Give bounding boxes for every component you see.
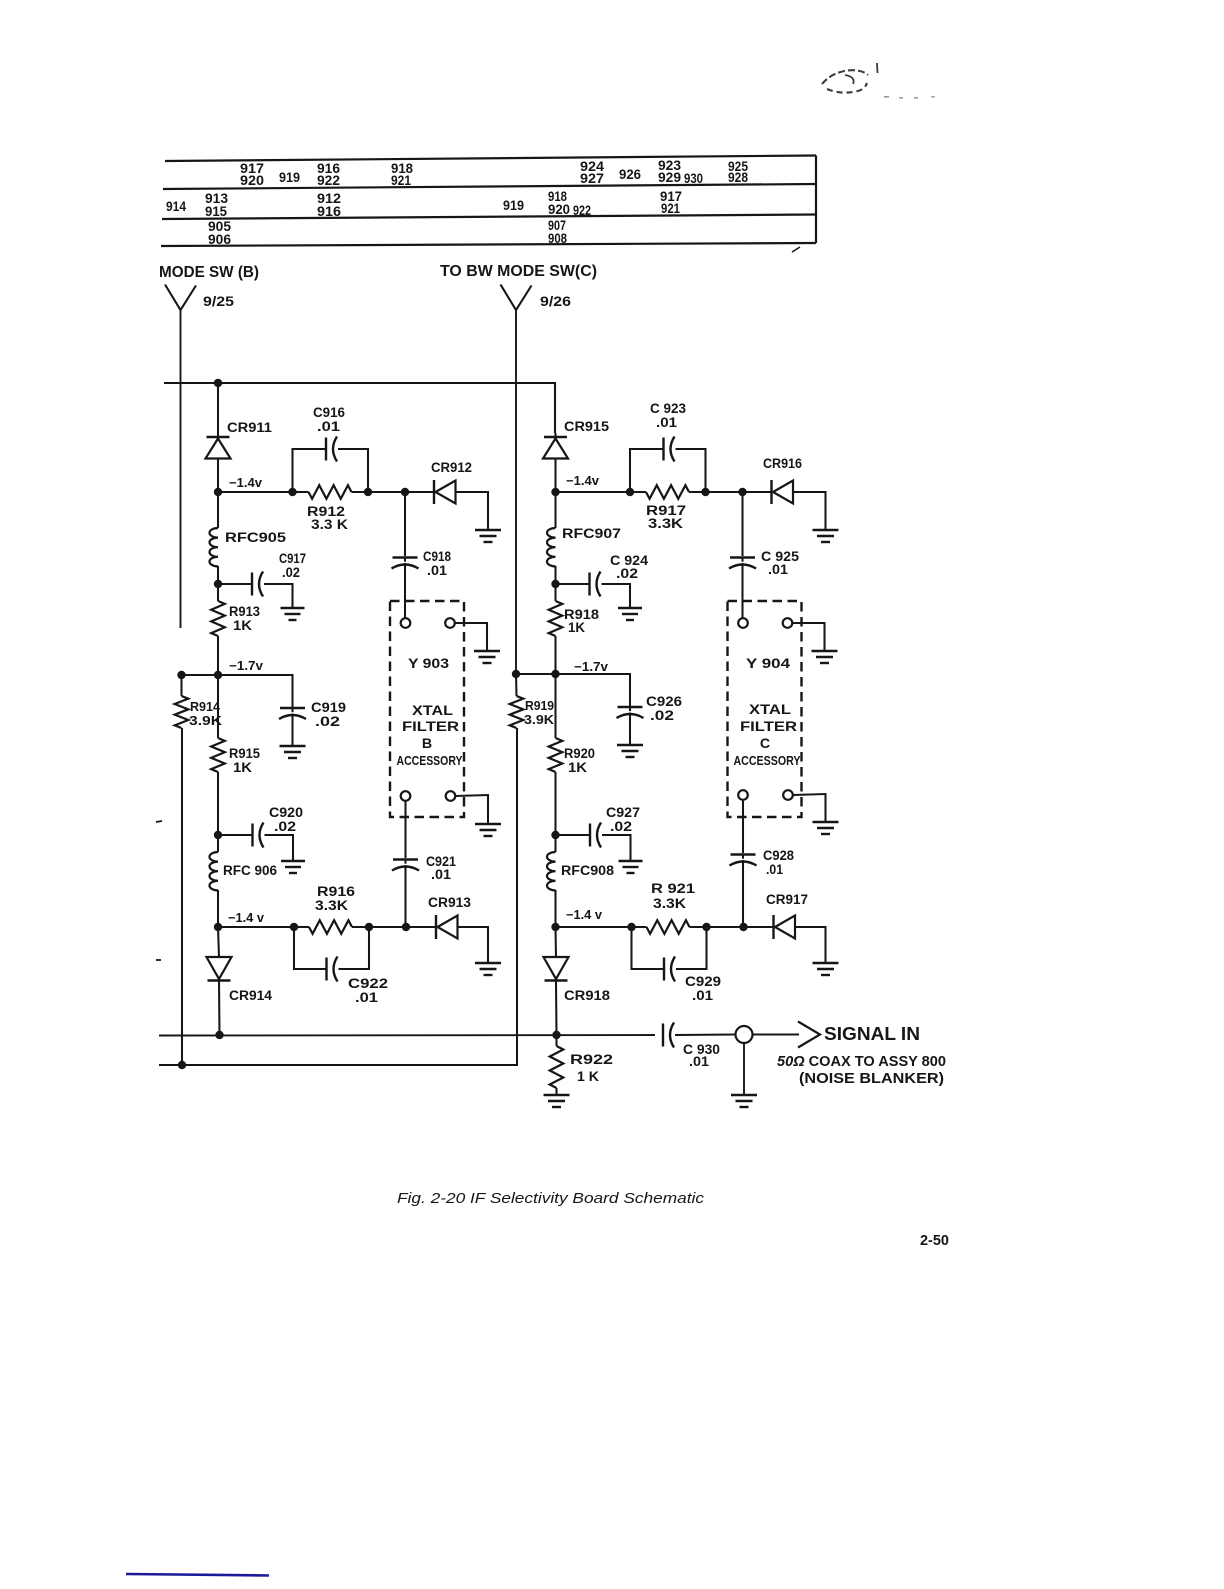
node -1.4v row2 left — [214, 923, 222, 931]
label C925 value — [768, 562, 788, 578]
capacitor C927 — [556, 823, 631, 861]
svg-text:.01: .01 — [317, 419, 340, 435]
wire -1.7v row — [182, 674, 219, 676]
label C924 value — [616, 566, 638, 582]
wire R917 to C925 node — [706, 491, 772, 493]
node top bus / CR911 — [214, 379, 222, 387]
svg-text:926: 926 — [619, 167, 641, 182]
capacitor C918 — [392, 492, 419, 619]
ground R922 — [544, 1095, 570, 1107]
label CR912 — [431, 460, 472, 476]
svg-text:.02: .02 — [650, 708, 674, 724]
terminal Y904 pin 2 — [783, 618, 793, 628]
svg-text:−1.4 v: −1.4 v — [566, 908, 602, 922]
svg-text:921: 921 — [661, 201, 680, 216]
svg-text:1K: 1K — [568, 620, 586, 636]
svg-text:919: 919 — [279, 170, 300, 185]
ground connector — [731, 1095, 757, 1107]
choke RFC905 — [209, 492, 218, 584]
label C929 — [685, 974, 721, 990]
svg-text:Y 903: Y 903 — [408, 656, 449, 672]
wire bus2 — [159, 1064, 517, 1066]
label -1.4v (1) — [229, 476, 262, 490]
label -1.7v (r) — [574, 660, 608, 674]
label R916 — [317, 884, 355, 900]
svg-text:CR915: CR915 — [564, 419, 609, 435]
svg-text:908: 908 — [548, 231, 567, 246]
table tick mark — [792, 247, 800, 252]
terminal Y903 pin 3 — [401, 791, 411, 801]
label R918 — [564, 607, 599, 623]
svg-text:CR913: CR913 — [428, 895, 471, 911]
ground C920 — [281, 861, 305, 873]
label -1.7v — [229, 659, 263, 673]
svg-text:919: 919 — [503, 198, 524, 213]
svg-text:9/26: 9/26 — [540, 293, 571, 309]
stray mark 1 — [156, 821, 162, 822]
label R921 — [651, 881, 695, 897]
resistor R920 — [549, 674, 563, 835]
svg-text:.01: .01 — [766, 862, 783, 878]
wire R916 to CR913 — [369, 926, 436, 928]
wire R921 to CR917 — [707, 926, 774, 928]
svg-text:R914: R914 — [190, 699, 221, 714]
svg-text:CR912: CR912 — [431, 460, 472, 476]
ground Y904 pin4 — [813, 822, 839, 834]
label B — [422, 736, 432, 752]
svg-text:SIGNAL IN: SIGNAL IN — [824, 1024, 920, 1044]
table line 2 — [163, 184, 816, 189]
capacitor C926 — [556, 674, 644, 745]
resistor R917 — [630, 485, 706, 499]
label C926 value — [650, 708, 674, 724]
node R914 / bus2 — [178, 1061, 186, 1069]
svg-text:1K: 1K — [233, 618, 253, 634]
arrow to mode sw B — [165, 285, 196, 311]
label C923 value — [656, 415, 677, 431]
svg-text:1 K: 1 K — [577, 1069, 600, 1085]
resistor R913 — [211, 584, 225, 675]
label XTAL r — [749, 702, 791, 718]
svg-text:RFC 906: RFC 906 — [223, 863, 277, 879]
label C927 value — [610, 819, 632, 835]
label CR911 — [227, 420, 272, 436]
wire CR917 to ground — [795, 927, 826, 962]
label C929 value — [692, 988, 713, 1004]
capacitor C922 bypass loop — [294, 927, 369, 982]
table line 3 — [162, 215, 816, 220]
svg-text:3.9K: 3.9K — [524, 712, 555, 727]
terminal Y903 pin 2 — [445, 618, 455, 628]
svg-text:930: 930 — [684, 171, 703, 186]
label R919 value — [524, 712, 555, 727]
wire CR913 to ground — [458, 927, 489, 962]
node -1.4v row left — [214, 488, 222, 496]
svg-text:FILTER: FILTER — [740, 719, 797, 735]
node -1.7v left — [177, 671, 185, 679]
node CR918 / bus1 — [552, 1031, 560, 1039]
wire to signal arrow — [753, 1034, 800, 1036]
ground C919 — [280, 746, 306, 758]
svg-text:2-50: 2-50 — [920, 1232, 949, 1249]
label C928 value — [766, 862, 783, 878]
label C920 — [269, 805, 303, 821]
terminal Y904 pin 1 — [738, 618, 748, 628]
label FILTER r — [740, 719, 797, 735]
label CR914 — [229, 988, 272, 1004]
svg-text:−1.4v: −1.4v — [229, 476, 262, 490]
node R912 right — [364, 488, 372, 496]
crystal filter Y904 box — [728, 601, 802, 817]
label C917 value — [282, 565, 300, 581]
label -1.4v (r1) — [566, 474, 599, 488]
crystal filter Y903 box — [390, 601, 464, 817]
svg-text:CR914: CR914 — [229, 988, 272, 1004]
node C924 tap — [551, 580, 559, 588]
capacitor C929 bypass loop — [632, 927, 707, 982]
label ACCESSORY r — [734, 754, 802, 768]
ground CR913 — [475, 963, 501, 975]
svg-text:.01: .01 — [355, 990, 378, 1006]
label C918 — [423, 549, 451, 565]
svg-text:.01: .01 — [656, 415, 677, 431]
diode CR914 — [207, 927, 232, 1035]
label C925 — [761, 549, 799, 565]
svg-text:9/25: 9/25 — [203, 293, 234, 309]
svg-text:FILTER: FILTER — [402, 719, 459, 735]
wire -1.4v row2 r — [556, 926, 632, 928]
label C927 — [606, 805, 640, 821]
diode CR915 — [543, 433, 568, 492]
terminal Y904 pin 4 — [783, 790, 793, 800]
capacitor C925 — [729, 492, 756, 619]
ground Y903 pin4 — [475, 824, 501, 836]
wire R912 to C918 node — [368, 491, 434, 493]
label Y 904 — [746, 656, 790, 672]
node R921 right — [702, 923, 710, 931]
capacitor C920 — [218, 823, 293, 861]
label R920 value — [568, 760, 588, 776]
diode CR913 — [436, 915, 458, 939]
node C918 tap — [401, 488, 409, 496]
svg-text:922: 922 — [317, 173, 340, 188]
svg-text:.01: .01 — [692, 988, 713, 1004]
node C917 tap — [214, 580, 222, 588]
ground Y904 pin2 — [812, 651, 838, 663]
svg-text:1K: 1K — [233, 760, 253, 776]
svg-text:MODE SW (B): MODE SW (B) — [159, 264, 259, 281]
svg-text:928: 928 — [728, 170, 748, 185]
table right edge — [815, 156, 817, 244]
svg-text:CR916: CR916 — [763, 456, 802, 472]
capacitor C917 — [218, 572, 293, 608]
label CR918 — [564, 988, 610, 1004]
ground C927 — [619, 861, 643, 873]
svg-text:XTAL: XTAL — [412, 703, 453, 719]
ground CR916 — [813, 530, 839, 542]
node C920 tap — [214, 831, 222, 839]
label RFC905 — [225, 530, 286, 546]
resistor R919 — [159, 674, 523, 1065]
label 9/26 — [540, 293, 571, 309]
label ACCESSORY — [397, 754, 463, 768]
svg-text:3.3K: 3.3K — [648, 516, 684, 532]
label CR913 — [428, 895, 471, 911]
svg-text:−1.7v: −1.7v — [574, 660, 608, 674]
ground C917 — [281, 608, 305, 620]
page number 2-50 — [920, 1232, 949, 1249]
svg-text:R922: R922 — [570, 1052, 613, 1068]
svg-text:.02: .02 — [274, 819, 296, 835]
svg-text:.01: .01 — [431, 867, 451, 883]
wire connector to ground — [743, 1043, 745, 1094]
label R912 value — [311, 517, 349, 533]
footer blue rule — [126, 1574, 269, 1576]
svg-text:3.3K: 3.3K — [315, 898, 349, 914]
svg-text:3.3 K: 3.3 K — [311, 517, 349, 533]
svg-text:CR918: CR918 — [564, 988, 610, 1004]
diode CR912 — [434, 480, 456, 504]
resistor R914 — [175, 675, 189, 1065]
capacitor C930 — [663, 1023, 736, 1048]
diode CR917 — [774, 915, 796, 939]
ground C926 — [617, 745, 643, 757]
label TO BW MODE SW(C) — [440, 263, 597, 280]
svg-text:920: 920 — [240, 173, 264, 188]
node CR914 / bus1 — [215, 1031, 223, 1039]
choke RFC907 — [547, 492, 556, 584]
label C922 value — [355, 990, 378, 1006]
svg-text:RFC907: RFC907 — [562, 526, 621, 542]
wire -1.4v row — [218, 491, 293, 493]
label R916 value — [315, 898, 349, 914]
node R917 left — [626, 488, 634, 496]
capacitor C916 bypass loop — [293, 437, 369, 493]
table line 4 — [161, 243, 816, 246]
diode CR916 — [772, 480, 794, 504]
label R922 value — [577, 1069, 600, 1085]
svg-text:XTAL: XTAL — [749, 702, 791, 718]
label 9/25 — [203, 293, 234, 309]
wire CR916 to ground — [793, 492, 826, 529]
svg-text:Fig. 2-20 IF Selectivity B: Fig. 2-20 IF Selectivity Board Schematic — [397, 1190, 705, 1207]
choke RFC906 — [209, 835, 218, 927]
node C928 tap — [739, 923, 747, 931]
node C925 tap — [738, 488, 746, 496]
node R912 left — [288, 488, 296, 496]
diode CR911 — [206, 383, 231, 492]
label R913 — [229, 604, 260, 620]
label R917 value — [648, 516, 684, 532]
resistor R922 — [550, 1035, 564, 1094]
label Y 903 — [408, 656, 449, 672]
table line 1 — [165, 156, 816, 162]
svg-text:920: 920 — [548, 202, 570, 217]
ground CR917 — [813, 963, 839, 975]
label C922 — [348, 976, 388, 992]
svg-text:−1.4 v: −1.4 v — [228, 911, 264, 925]
svg-text:Y 904: Y 904 — [746, 656, 790, 672]
svg-text:RFC905: RFC905 — [225, 530, 286, 546]
choke RFC908 — [547, 835, 556, 927]
node R916 left — [290, 923, 298, 931]
label C917 — [279, 551, 306, 567]
resistor R918 — [549, 584, 563, 673]
svg-text:.02: .02 — [315, 714, 340, 730]
capacitor C928 — [730, 800, 757, 927]
svg-text:.01: .01 — [689, 1054, 709, 1070]
svg-text:RFC908: RFC908 — [561, 863, 614, 879]
label -1.4 v (2) — [228, 911, 264, 925]
svg-text:922: 922 — [573, 203, 591, 218]
wire Y903 pin4 to ground — [456, 795, 489, 823]
terminal Y903 pin 1 — [401, 618, 411, 628]
label R920 — [564, 746, 595, 762]
label FILTER — [402, 719, 459, 735]
node C921 tap — [402, 923, 410, 931]
svg-text:CR911: CR911 — [227, 420, 272, 436]
svg-text:.02: .02 — [610, 819, 632, 835]
terminal Y904 pin 3 — [738, 790, 748, 800]
capacitor C919 — [218, 675, 306, 746]
wire -1.7v row r — [516, 673, 556, 675]
node -1.7v r left — [512, 670, 520, 678]
label C921 — [426, 854, 456, 870]
label CR915 — [564, 419, 609, 435]
svg-text:.02: .02 — [616, 566, 638, 582]
node -1.4v row2 r — [551, 923, 559, 931]
svg-text:915: 915 — [205, 204, 228, 219]
wire CR912 to ground — [456, 492, 489, 529]
resistor R916 — [294, 920, 369, 934]
svg-text:.01: .01 — [768, 562, 788, 578]
label -1.4 v (r2) — [566, 908, 602, 922]
label C — [760, 736, 770, 752]
resistor R921 — [632, 920, 707, 934]
svg-text:B: B — [422, 736, 432, 752]
svg-text:906: 906 — [208, 232, 231, 247]
label R914 value — [189, 713, 223, 728]
label CR916 — [763, 456, 802, 472]
label R922 — [570, 1052, 613, 1068]
svg-text:921: 921 — [391, 173, 411, 188]
terminal Y903 pin 4 — [446, 791, 456, 801]
wire Y903 pin2 to ground — [455, 623, 487, 650]
label CR917 — [766, 892, 808, 908]
wire bus1 — [159, 1034, 655, 1037]
label C930 — [683, 1042, 720, 1058]
svg-text:916: 916 — [317, 204, 341, 219]
resistor R915 — [211, 675, 225, 835]
figure caption — [397, 1190, 705, 1207]
label C926 — [646, 694, 682, 710]
svg-text:−1.7v: −1.7v — [229, 659, 263, 673]
node -1.7v r main — [551, 670, 559, 678]
label C918 value — [427, 563, 447, 579]
svg-text:(NOISE BLANKER): (NOISE BLANKER) — [799, 1071, 944, 1087]
svg-text:R919: R919 — [525, 698, 554, 713]
capacitor C921 — [392, 801, 419, 927]
label XTAL — [412, 703, 453, 719]
ground C924 — [618, 608, 642, 620]
label C920 value — [274, 819, 296, 835]
label R914 — [190, 699, 221, 714]
label C928 — [763, 848, 794, 864]
label 50 ohm coax — [777, 1054, 946, 1070]
wire -1.4v row2 — [218, 926, 294, 928]
diode CR918 — [544, 927, 569, 1035]
svg-text:−1.4v: −1.4v — [566, 474, 599, 488]
label C916 — [313, 405, 345, 421]
label R919 — [525, 698, 554, 713]
label C924 — [610, 553, 648, 569]
connector coax J1 — [736, 1026, 753, 1043]
resistor R912 — [293, 485, 369, 499]
label SIGNAL IN — [824, 1024, 920, 1044]
svg-text:1K: 1K — [568, 760, 588, 776]
node R916 right — [365, 923, 373, 931]
svg-text:914: 914 — [166, 199, 186, 214]
wire Y904 pin4 to ground — [793, 794, 826, 821]
ground Y903 pin2 — [474, 651, 500, 663]
stray mark 2 — [156, 959, 161, 961]
svg-text:TO BW MODE SW(C): TO BW MODE SW(C) — [440, 263, 597, 280]
label R915 — [229, 746, 260, 762]
label RFC906 — [223, 863, 277, 879]
node C927 tap — [551, 831, 559, 839]
label C930 value — [689, 1054, 709, 1070]
svg-text:927: 927 — [580, 171, 604, 186]
label R921 value — [653, 896, 687, 912]
label R913 value — [233, 618, 253, 634]
label RFC907 — [562, 526, 621, 542]
wire Y904 pin2 to ground — [793, 623, 825, 650]
node -1.4v row right — [551, 488, 559, 496]
label C921 value — [431, 867, 451, 883]
capacitor C924 — [556, 572, 631, 608]
capacitor C923 bypass loop — [630, 437, 706, 493]
arrow to bw mode sw C — [501, 285, 532, 311]
svg-text:50Ω COAX TO ASSY 800: 50Ω COAX TO ASSY 800 — [777, 1054, 946, 1070]
label C919 — [311, 700, 346, 716]
arrow signal in — [798, 1022, 820, 1048]
label R912 — [307, 504, 345, 520]
svg-text:C: C — [760, 736, 770, 752]
svg-text:3.3K: 3.3K — [653, 896, 687, 912]
table wiring chart numbers — [166, 158, 748, 247]
svg-text:.02: .02 — [282, 565, 300, 581]
wire -1.4v row r — [556, 491, 631, 493]
label C919 value — [315, 714, 340, 730]
label C923 — [650, 401, 686, 417]
svg-text:ACCESSORY: ACCESSORY — [734, 754, 802, 768]
label C916 value — [317, 419, 340, 435]
ground CR912 — [475, 530, 501, 542]
label R915 value — [233, 760, 253, 776]
node R921 left — [627, 923, 635, 931]
svg-text:ACCESSORY: ACCESSORY — [397, 754, 463, 768]
label noise blanker — [799, 1071, 944, 1087]
label MODE SW (B) — [159, 264, 259, 281]
publisher logo mark — [822, 63, 935, 99]
svg-text:929: 929 — [658, 170, 681, 185]
wire top bus — [164, 383, 555, 433]
node -1.7v main — [214, 671, 222, 679]
node R917 right — [701, 488, 709, 496]
wire 9/25 drop — [180, 310, 182, 628]
svg-text:R 921: R 921 — [651, 881, 695, 897]
label RFC908 — [561, 863, 614, 879]
